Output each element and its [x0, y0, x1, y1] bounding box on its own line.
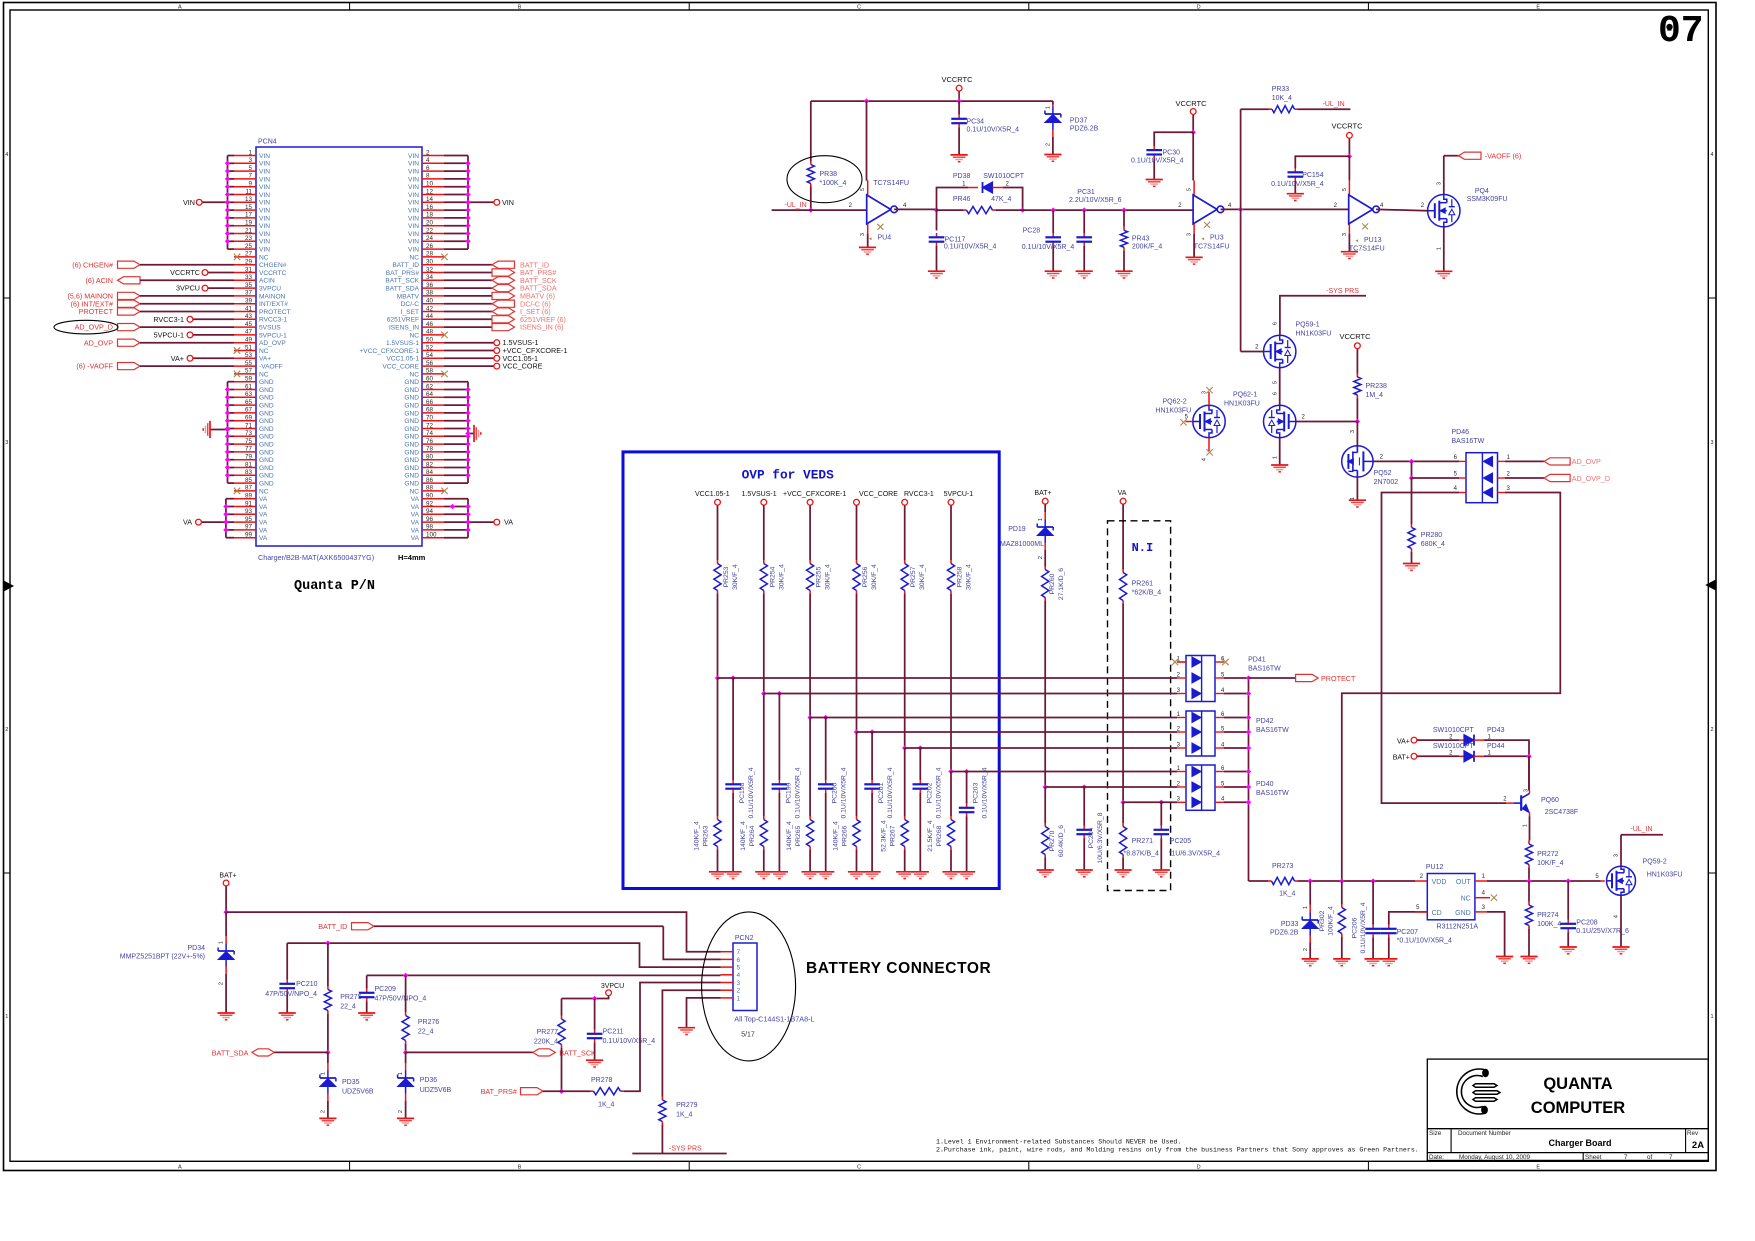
resistor PR254	[763, 560, 765, 564]
svg-text:PR265: PR265	[795, 825, 802, 846]
svg-text:A: A	[178, 1164, 182, 1170]
capacitor PC205	[1160, 802, 1162, 825]
flag -VAOFF	[1459, 152, 1482, 159]
svg-text:VIN: VIN	[408, 161, 419, 168]
svg-text:81: 81	[245, 461, 253, 468]
svg-text:30K/F_4: 30K/F_4	[919, 564, 926, 590]
wire bus to PU4 vcc	[866, 101, 868, 180]
wire PR278 to PCN2 pin3	[624, 983, 721, 1092]
svg-text:50: 50	[426, 337, 434, 344]
wire PR261 to PD40 pin3 row	[1122, 604, 1124, 802]
svg-text:66: 66	[426, 399, 434, 406]
resistor PR270	[1044, 823, 1046, 827]
capacitor PC154	[1294, 168, 1296, 172]
svg-text:0.1U/10V/X5R_4: 0.1U/10V/X5R_4	[887, 767, 894, 818]
svg-text:0.1U/10V/X5R_4: 0.1U/10V/X5R_4	[1131, 158, 1184, 165]
svg-text:83: 83	[245, 469, 253, 476]
svg-text:-VAOFF (6): -VAOFF (6)	[1485, 151, 1522, 160]
svg-text:VIN: VIN	[408, 208, 419, 215]
capacitor PC202	[919, 780, 921, 784]
svg-text:INT/EXT#: INT/EXT#	[259, 301, 288, 308]
port VCCRTC mid	[1355, 343, 1361, 349]
svg-text:VA: VA	[183, 518, 192, 527]
wire PQ60 emitter to PR272	[1529, 817, 1531, 841]
svg-text:(6) ACIN: (6) ACIN	[85, 276, 113, 285]
svg-text:GND: GND	[404, 465, 419, 472]
svg-text:55: 55	[245, 360, 253, 367]
ground PQ62-1	[1271, 464, 1288, 466]
port VCC_CORE	[854, 499, 860, 505]
svg-text:2SC4738F: 2SC4738F	[1545, 809, 1578, 816]
svg-text:PR275: PR275	[340, 994, 362, 1001]
svg-text:PQ62-2: PQ62-2	[1163, 399, 1187, 406]
svg-text:PD46: PD46	[1452, 429, 1470, 436]
svg-text:VIN: VIN	[502, 198, 514, 207]
svg-text:NC: NC	[409, 488, 419, 495]
resistor PR268	[950, 816, 952, 820]
svg-text:75: 75	[245, 438, 253, 445]
ground PU13	[1341, 251, 1358, 253]
resistor PR264	[763, 816, 765, 820]
svg-text:63: 63	[245, 391, 253, 398]
svg-text:PR270: PR270	[1049, 830, 1056, 851]
svg-text:21: 21	[245, 227, 253, 234]
svg-text:VCCRTC: VCCRTC	[1175, 99, 1207, 108]
svg-text:73: 73	[245, 430, 253, 437]
wire PCN2 pin1 to ground	[687, 998, 721, 1028]
svg-text:VA: VA	[259, 527, 268, 534]
svg-text:57: 57	[245, 368, 253, 375]
svg-text:60.4K/D_6: 60.4K/D_6	[1058, 825, 1065, 857]
svg-text:VIN: VIN	[408, 231, 419, 238]
svg-text:PC202: PC202	[926, 782, 933, 803]
svg-text:GND: GND	[259, 434, 274, 441]
svg-text:I_SET: I_SET	[401, 309, 419, 316]
flag BATT_SCK	[406, 1051, 533, 1053]
svg-text:GND: GND	[404, 418, 419, 425]
op-amp PU4 TC7S14FU inverter	[867, 195, 891, 224]
svg-text:HN1K03FU: HN1K03FU	[1296, 331, 1332, 338]
svg-text:BAS16TW: BAS16TW	[1452, 438, 1485, 445]
svg-text:3VPCU: 3VPCU	[601, 983, 624, 990]
svg-text:6: 6	[737, 957, 741, 964]
port 1.5VSUS-1	[761, 499, 767, 505]
ground PC203	[958, 871, 975, 873]
resistor PR302	[1341, 881, 1343, 904]
svg-text:*0.1U/10V/X5R_4: *0.1U/10V/X5R_4	[1397, 937, 1452, 944]
svg-text:3VPCU: 3VPCU	[259, 286, 281, 293]
svg-text:NC: NC	[259, 371, 269, 378]
svg-text:65: 65	[245, 399, 253, 406]
svg-text:2: 2	[737, 988, 741, 995]
svg-text:VA: VA	[259, 496, 268, 503]
svg-text:PR274: PR274	[1537, 912, 1559, 919]
svg-text:GND: GND	[404, 395, 419, 402]
svg-text:1: 1	[1710, 1014, 1713, 1020]
svg-text:VIN: VIN	[259, 231, 270, 238]
svg-text:PDZ6.2B: PDZ6.2B	[1270, 930, 1299, 937]
capacitor PC31	[1083, 210, 1085, 233]
svg-text:PC204: PC204	[1088, 827, 1095, 848]
capacitor PC203	[966, 804, 968, 808]
svg-text:VA: VA	[411, 496, 420, 503]
svg-text:1: 1	[398, 1072, 404, 1075]
svg-text:80: 80	[426, 454, 434, 461]
port 3VPCU bottom	[606, 990, 612, 996]
capacitor PC209	[366, 975, 368, 988]
svg-text:90: 90	[426, 493, 434, 500]
connector PCN2	[733, 943, 757, 1011]
transistor PQ52 2N7002	[1342, 446, 1373, 477]
svg-text:4: 4	[737, 972, 741, 979]
svg-text:Quanta P/N: Quanta P/N	[294, 579, 375, 594]
capacitor PC204	[1083, 787, 1085, 826]
flag DC/-C	[444, 303, 492, 305]
svg-text:53: 53	[245, 352, 253, 359]
port VA right	[468, 521, 494, 523]
resistor PR273	[1249, 880, 1269, 882]
transistor PQ59-2 HN1K03FU	[1601, 880, 1605, 882]
Quanta logo	[1457, 1069, 1484, 1114]
svg-text:SW1010CPT: SW1010CPT	[1433, 727, 1475, 734]
svg-text:VIN: VIN	[259, 200, 270, 207]
wire PQ62-1 gate to junction	[1296, 421, 1358, 423]
port VA mid	[1120, 498, 1126, 504]
svg-text:35: 35	[245, 282, 253, 289]
svg-text:52: 52	[426, 344, 434, 351]
svg-text:PC210: PC210	[296, 981, 318, 988]
ground PR280	[1403, 563, 1420, 565]
svg-text:VIN: VIN	[259, 192, 270, 199]
svg-text:VA+: VA+	[1397, 738, 1410, 745]
svg-text:2: 2	[5, 727, 8, 733]
svg-text:SW1010CPT: SW1010CPT	[983, 173, 1025, 180]
svg-text:84: 84	[426, 469, 434, 476]
svg-text:BATTERY CONNECTOR: BATTERY CONNECTOR	[806, 960, 991, 977]
ground PR263	[709, 871, 726, 873]
svg-text:VA: VA	[411, 520, 420, 527]
net BATT_SDA wire	[287, 943, 720, 967]
port BAT+ bottom	[223, 880, 229, 886]
svg-text:GND: GND	[1455, 910, 1471, 917]
svg-text:PQ59-2: PQ59-2	[1643, 859, 1667, 866]
svg-text:AD_OVP: AD_OVP	[1572, 457, 1601, 466]
svg-text:47K_4: 47K_4	[991, 196, 1011, 203]
svg-text:2N7002: 2N7002	[1374, 479, 1399, 486]
svg-text:140K/F_4: 140K/F_4	[786, 821, 793, 851]
svg-text:74: 74	[426, 430, 434, 437]
ground PC205	[1153, 869, 1170, 871]
svg-text:VIN: VIN	[259, 169, 270, 176]
svg-text:PC200: PC200	[832, 782, 839, 803]
svg-text:VIN: VIN	[259, 184, 270, 191]
port +VCC_CFXCORE-1	[807, 499, 813, 505]
svg-text:GND: GND	[259, 395, 274, 402]
ground PQ52	[1349, 499, 1366, 501]
diode array PD40 BAS16TW	[1186, 765, 1215, 810]
wire PQ52 to PD46 pin6	[1373, 460, 1459, 462]
svg-text:PR253: PR253	[723, 566, 730, 587]
svg-text:2: 2	[1710, 727, 1713, 733]
wire PU4 out to node A	[894, 208, 936, 210]
svg-text:PR277: PR277	[537, 1029, 559, 1036]
wire divider 5VPCU-1	[950, 594, 952, 772]
svg-text:Size: Size	[1429, 1130, 1442, 1137]
svg-text:14: 14	[426, 196, 434, 203]
wire PU3 out	[1221, 208, 1349, 210]
ground PC201	[864, 871, 881, 873]
flag BATT_ID	[444, 264, 492, 266]
svg-text:PD38: PD38	[953, 173, 971, 180]
svg-text:23: 23	[245, 235, 253, 242]
svg-text:MAZ81000ML: MAZ81000ML	[1000, 541, 1044, 548]
flag (6) ACIN	[118, 277, 141, 284]
ground PC207	[1380, 958, 1397, 960]
ground PC210	[279, 1012, 296, 1014]
port VA left	[202, 521, 226, 523]
svg-text:30K/F_4: 30K/F_4	[825, 564, 832, 590]
svg-text:*8.87K/B_4: *8.87K/B_4	[1124, 851, 1160, 858]
svg-text:Rev: Rev	[1687, 1130, 1699, 1137]
ground PR274	[1520, 956, 1537, 958]
svg-text:0.1U/10V/X5R_4: 0.1U/10V/X5R_4	[1271, 181, 1324, 188]
ground PC209	[358, 1012, 375, 1014]
resistor PR265	[809, 816, 811, 820]
svg-text:N.I: N.I	[1132, 541, 1154, 555]
svg-text:96: 96	[426, 516, 434, 523]
svg-text:AD_OVP: AD_OVP	[84, 338, 113, 347]
ground PC204	[1076, 869, 1093, 871]
ground PC117	[928, 270, 945, 272]
svg-text:GND: GND	[404, 473, 419, 480]
svg-text:NC: NC	[1461, 896, 1471, 903]
svg-text:All Top-C144S1-1B7A8-L: All Top-C144S1-1B7A8-L	[734, 1015, 814, 1024]
svg-text:PC198: PC198	[739, 782, 746, 803]
svg-text:67: 67	[245, 407, 253, 414]
ground PD37	[1044, 154, 1061, 156]
svg-text:47P/50V/NPO_4: 47P/50V/NPO_4	[375, 996, 427, 1003]
svg-text:PROTECT: PROTECT	[259, 309, 291, 316]
flag 6251VREF	[444, 318, 492, 320]
svg-text:Sheet: Sheet	[1585, 1154, 1602, 1161]
svg-text:0.1U/10V/X5R_4: 0.1U/10V/X5R_4	[1360, 902, 1367, 953]
svg-text:VCC1.05-1: VCC1.05-1	[386, 356, 419, 363]
svg-text:BAS16TW: BAS16TW	[1248, 666, 1281, 673]
svg-text:E: E	[1536, 5, 1540, 11]
port VIN left	[203, 201, 228, 203]
junction pin92	[450, 504, 455, 509]
capacitor PC117	[936, 210, 938, 230]
svg-text:93: 93	[245, 508, 253, 515]
svg-text:PR273: PR273	[1272, 863, 1294, 870]
svg-text:88: 88	[426, 485, 434, 492]
svg-text:38: 38	[426, 290, 434, 297]
svg-text:69: 69	[245, 415, 253, 422]
svg-text:VA: VA	[411, 527, 420, 534]
svg-text:1: 1	[1523, 824, 1529, 827]
PQ52 source to ground	[1356, 477, 1358, 500]
svg-text:PD40: PD40	[1256, 781, 1274, 788]
svg-text:3: 3	[860, 233, 866, 236]
ground PC28	[1045, 270, 1062, 272]
svg-text:58: 58	[426, 368, 434, 375]
svg-text:1.5VSUS-1: 1.5VSUS-1	[386, 340, 419, 347]
svg-text:VIN: VIN	[408, 176, 419, 183]
svg-text:PR38: PR38	[820, 171, 838, 178]
transistor PQ62-1 HN1K03FU	[1264, 405, 1296, 437]
svg-text:5VSUS: 5VSUS	[259, 325, 281, 332]
svg-text:HN1K03FU: HN1K03FU	[1224, 401, 1260, 408]
svg-text:PC117: PC117	[945, 237, 966, 244]
svg-text:5/17: 5/17	[741, 1032, 755, 1039]
ground PC198	[725, 871, 742, 873]
svg-text:46: 46	[426, 321, 434, 328]
port VCC1.05-1	[444, 357, 494, 359]
svg-text:PC34: PC34	[967, 119, 985, 126]
svg-text:PD35: PD35	[342, 1079, 360, 1086]
svg-text:NC: NC	[259, 348, 269, 355]
wire PR46 right to PU3	[996, 209, 1193, 211]
svg-text:BAT_PRS#: BAT_PRS#	[481, 1087, 517, 1096]
svg-text:34: 34	[426, 274, 434, 281]
svg-text:VIN: VIN	[408, 184, 419, 191]
ground PC206	[1365, 958, 1382, 960]
port VIN right	[468, 201, 494, 203]
transistor PQ62-2 HN1K03FU	[1193, 405, 1225, 437]
svg-text:0.1U/10V/X5R_4: 0.1U/10V/X5R_4	[603, 1038, 656, 1045]
port VCCRTC	[208, 272, 234, 274]
svg-text:30K/F_4: 30K/F_4	[966, 564, 973, 590]
svg-text:PU3: PU3	[1210, 235, 1224, 242]
capacitor PC210	[286, 943, 288, 979]
wire PQ59-1 source to PQ62-1 drain	[1279, 368, 1281, 406]
svg-text:PC206: PC206	[1352, 917, 1359, 938]
svg-text:PR46: PR46	[953, 196, 971, 203]
svg-text:PU12: PU12	[1426, 864, 1444, 871]
svg-text:200K/F_4: 200K/F_4	[1132, 244, 1162, 251]
svg-text:PC28: PC28	[1023, 228, 1041, 235]
svg-text:87: 87	[245, 485, 253, 492]
PU3 gnd pin	[1193, 224, 1195, 234]
svg-text:PR257: PR257	[910, 566, 917, 587]
wire VCCRTC to PC30 and PU3	[1191, 130, 1196, 135]
svg-text:*62K/B_4: *62K/B_4	[1132, 590, 1162, 597]
port VCC1.05-1	[715, 499, 721, 505]
wire divider VCC_CORE	[856, 594, 858, 732]
svg-text:29: 29	[245, 259, 253, 266]
flag AD_OVP	[118, 339, 141, 346]
svg-text:PR43: PR43	[1132, 236, 1150, 243]
svg-text:3: 3	[1350, 430, 1356, 433]
diode PD35 UDZ5V6B zener	[327, 1052, 329, 1063]
resistor PR33	[1241, 108, 1269, 110]
transistor PQ60 2SC4738F	[1520, 795, 1522, 811]
svg-text:VIN: VIN	[408, 153, 419, 160]
svg-text:07: 07	[1658, 10, 1704, 53]
svg-text:PR254: PR254	[769, 566, 776, 587]
svg-text:4: 4	[1202, 458, 1208, 461]
svg-text:R3112N251A: R3112N251A	[1437, 924, 1479, 931]
VIN bus right	[467, 156, 469, 250]
svg-text:220K_4: 220K_4	[534, 1039, 558, 1046]
svg-text:680K_4: 680K_4	[1421, 541, 1445, 548]
svg-text:99: 99	[245, 532, 253, 539]
svg-text:UDZ5V6B: UDZ5V6B	[420, 1087, 452, 1094]
svg-text:BAT+: BAT+	[1034, 490, 1051, 497]
wire node A up to PD38	[937, 188, 969, 211]
svg-text:1: 1	[5, 1014, 8, 1020]
diode PD38 SW1010CPT	[968, 187, 978, 189]
svg-text:11: 11	[245, 188, 252, 195]
svg-text:B: B	[518, 1164, 522, 1170]
svg-text:GND: GND	[259, 410, 274, 417]
svg-text:91: 91	[245, 500, 253, 507]
svg-text:5: 5	[1273, 381, 1279, 384]
resistor PR276	[405, 975, 407, 1012]
wire divider VCC1.05-1	[717, 594, 719, 678]
svg-text:NC: NC	[259, 488, 269, 495]
svg-text:BATT_ID: BATT_ID	[392, 262, 419, 269]
svg-text:GND: GND	[404, 442, 419, 449]
svg-text:RVCC3-1: RVCC3-1	[259, 317, 287, 324]
VA bus right	[467, 499, 469, 538]
op-amp PU13 TC7S14FU inverter	[1349, 195, 1373, 224]
svg-text:4: 4	[1614, 915, 1620, 918]
svg-text:PDZ6.2B: PDZ6.2B	[1070, 126, 1099, 133]
svg-text:1K_4: 1K_4	[676, 1112, 692, 1119]
resistor PR255	[809, 560, 811, 564]
svg-text:70: 70	[426, 415, 434, 422]
resistor PR274	[1528, 881, 1530, 902]
svg-text:PR33: PR33	[1272, 86, 1290, 93]
svg-text:VCCRTC: VCCRTC	[259, 270, 287, 277]
svg-text:VIN: VIN	[259, 161, 270, 168]
ground PR265	[802, 871, 819, 873]
svg-text:PD36: PD36	[420, 1077, 438, 1084]
svg-text:26: 26	[426, 243, 434, 250]
ground PC154	[1287, 193, 1304, 195]
svg-text:48: 48	[426, 329, 434, 336]
svg-text:71: 71	[245, 422, 253, 429]
svg-text:22_4: 22_4	[418, 1029, 434, 1036]
wire PD46 pin4 to PQ60 base	[1382, 493, 1507, 804]
svg-text:77: 77	[245, 446, 253, 453]
PQ4 drain wire to -VAOFF	[1443, 156, 1445, 195]
svg-text:ISENS_IN (6): ISENS_IN (6)	[520, 323, 564, 332]
svg-text:31: 31	[245, 266, 253, 273]
svg-text:OVP for VEDS: OVP for VEDS	[742, 468, 834, 483]
svg-text:16: 16	[426, 204, 434, 211]
svg-text:100: 100	[426, 532, 437, 539]
capacitor PC198	[732, 780, 734, 784]
connector PCN2 ellipse	[702, 912, 796, 1061]
ground PR271	[1115, 869, 1132, 871]
svg-text:PCN2: PCN2	[735, 935, 754, 942]
PCN4 NC crosses	[234, 254, 240, 260]
ground PR43	[1115, 270, 1132, 272]
wire PD38 to node B	[1003, 188, 1023, 211]
resistor PR271	[1122, 823, 1124, 827]
svg-text:21.5K/F_4: 21.5K/F_4	[927, 820, 934, 852]
wire node A left	[937, 209, 964, 211]
resistor PR260	[1044, 566, 1046, 570]
PCN4 left pins	[234, 155, 256, 157]
svg-text:C: C	[857, 5, 861, 11]
svg-text:C: C	[857, 1164, 861, 1170]
svg-text:PC205: PC205	[1170, 838, 1192, 845]
PU12 OUT pin	[1475, 880, 1487, 882]
svg-text:PC201: PC201	[878, 782, 885, 803]
